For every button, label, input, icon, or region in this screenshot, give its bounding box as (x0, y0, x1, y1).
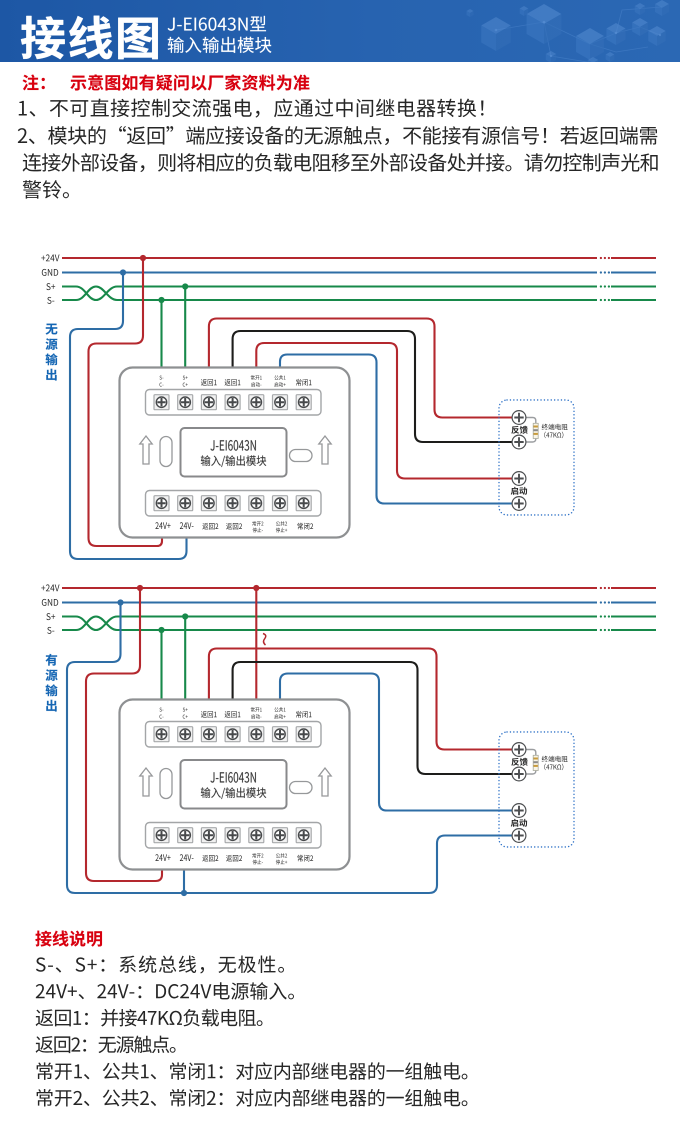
module U2 centre label box (181, 760, 287, 809)
module U2 pin labels top (160, 708, 164, 712)
note 2 line 3 (23, 180, 69, 198)
module U2 pin labels bottom (155, 854, 170, 861)
label 有源输出 (46, 654, 58, 666)
wire GND to module 24V- and 启动- (diagram 2) (67, 603, 519, 894)
wire 返回1 pin4 to 反馈- (233, 331, 519, 442)
module U1 pin labels top (160, 376, 164, 380)
terminal resistor 47K wiring (526, 750, 536, 775)
wire 返回1 pin4 to 反馈- (diagram 2) (233, 662, 519, 774)
terminal 启动 + (512, 472, 526, 486)
wire +24V to module 24V+ (diagram 2) (86, 588, 162, 881)
wire 返回1 pin3 to 反馈+ (209, 319, 519, 418)
label 反馈 (511, 758, 527, 766)
label 启动 (511, 819, 527, 827)
label 终端电阻(47KΩ) (542, 756, 568, 762)
label S+ (46, 283, 55, 290)
junction +24V drop (diagram 2) (137, 585, 143, 591)
junction GND drop (diagram 2) (117, 599, 123, 605)
junction S- drop (diagram 2) (158, 627, 164, 633)
subtitle 输入输出模块 (168, 37, 272, 53)
module U1 J-EI6043N body (120, 368, 350, 538)
label 终端电阻(47KΩ) (542, 424, 568, 430)
wire S- to module S-/C- (160, 300, 162, 369)
label 反馈 (511, 426, 527, 434)
subtitle J-EI6043N型 (168, 16, 266, 31)
label GND (42, 269, 58, 276)
net GND (diagram 2) bus (62, 601, 656, 603)
junction GND drop (diagram 1) (120, 269, 126, 275)
title 接线图 (21, 16, 158, 59)
description line 3 (36, 1009, 263, 1027)
controller terminal box CB2 (499, 732, 574, 847)
wire 公共1 pin6 to 启动+ (diagram 2) (280, 674, 519, 811)
wire GND to module 24V- (70, 273, 187, 560)
net GND (diagram 1) bus (62, 271, 656, 273)
label 启动 (511, 487, 527, 495)
description line 1 (36, 955, 284, 973)
label +24V (41, 584, 59, 591)
junction +24V pin5 drop (diagram 2) (253, 585, 259, 591)
description line 6 (37, 1089, 468, 1107)
module U1 polarity arrow left (140, 436, 152, 464)
terminal 反馈 + (512, 411, 526, 425)
net S+/S- (diagram 2) twisted pair bus (62, 617, 656, 631)
label S- (47, 627, 54, 634)
module U1 centre label box (181, 428, 287, 477)
note red text (70, 74, 309, 90)
module U1 LED window left (160, 437, 172, 467)
wire S- to module S-/C- (diagram 2) (160, 630, 162, 701)
controller terminal box CB1 (499, 400, 574, 515)
module U1 bottom terminal strip (146, 491, 322, 517)
note 1 (19, 99, 484, 118)
heading 接线说明 (35, 930, 102, 946)
description line 2 (36, 982, 294, 1000)
junction GND bottom tee (diagram 2) (181, 890, 187, 896)
module U2 polarity arrow right (319, 768, 331, 796)
label 无源输出 (46, 324, 58, 335)
wire branch bottom bus to module 24V- (183, 868, 185, 893)
wire 常开1 pin5 to 启动+ (256, 343, 519, 479)
terminal 启动 - (512, 497, 526, 511)
header band (0, 0, 680, 62)
module U1 LED window right (290, 450, 313, 462)
net +24V (diagram 2) bus (62, 587, 656, 589)
wire S+ to module S+/C+ (184, 287, 186, 370)
terminal 启动 - (512, 829, 526, 843)
module U2 top terminal strip (146, 722, 322, 748)
label S- (47, 297, 54, 304)
module U2 polarity arrow left (140, 768, 152, 796)
terminal 反馈 + (512, 743, 526, 757)
wire S+ to module S+/C+ (diagram 2) (184, 617, 186, 702)
label +24V (41, 254, 59, 261)
module U2 J-EI6043N body (120, 700, 350, 870)
header decorative cubes (467, 0, 669, 69)
net +24V (diagram 1) bus (62, 257, 656, 259)
description line 5 (37, 1062, 468, 1080)
description line 4 (36, 1036, 176, 1054)
module U1 polarity arrow right (319, 436, 331, 464)
note 2 line 1 (18, 126, 657, 145)
terminal resistor 47K body (533, 755, 538, 770)
wire +24V direct to 常开1 pin5 (diagram 2) (255, 588, 257, 701)
junction +24V drop (diagram 1) (140, 255, 146, 261)
junction S- drop (diagram 1) (158, 297, 164, 303)
module U2 bottom terminal strip (146, 823, 322, 849)
module U1 top terminal strip (146, 390, 322, 416)
wire 公共1 pin6 to 启动- (280, 355, 519, 504)
junction S+ drop (diagram 2) (182, 613, 188, 619)
terminal 启动 + (512, 804, 526, 818)
terminal resistor 47K wiring (526, 418, 536, 443)
net S+/S- (diagram 1) twisted pair bus (62, 287, 656, 301)
label GND (42, 599, 58, 606)
terminal 反馈 - (512, 767, 526, 781)
terminal 反馈 - (512, 435, 526, 449)
note 2 line 2 (23, 153, 658, 172)
wire 返回1 pin3 to 反馈+ (diagram 2) (209, 649, 519, 750)
module U2 LED window right (290, 782, 313, 794)
note red 注 (23, 74, 45, 90)
label S+ (46, 613, 55, 620)
module U1 pin labels bottom (155, 522, 170, 529)
junction S+ drop (diagram 1) (182, 283, 188, 289)
spark mark on +24V feed (263, 634, 266, 646)
terminal resistor 47K body (533, 423, 538, 438)
wire +24V to module 24V+ (89, 258, 163, 546)
module U2 LED window left (160, 769, 172, 799)
